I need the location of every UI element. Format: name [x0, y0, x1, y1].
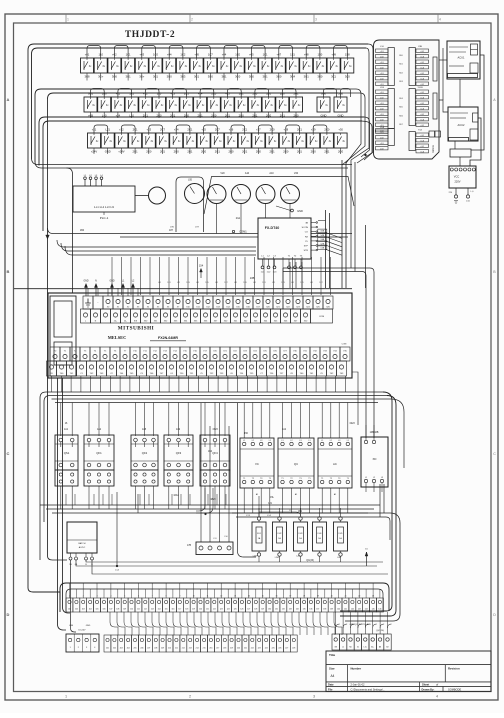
svg-text:2: 2 — [191, 18, 193, 22]
relay contact row3-11 — [225, 133, 238, 148]
svg-text:ACU1: ACU1 — [458, 56, 465, 60]
PLC output terminal Y33 — [320, 347, 330, 361]
relay contact row2-2 — [98, 97, 111, 112]
wire rail A — [32, 158, 353, 165]
net pin 16 — [366, 552, 368, 566]
wire stub — [148, 148, 150, 154]
terminal X1-42 — [349, 598, 356, 612]
svg-text:24-: 24- — [124, 321, 127, 323]
svg-text:T1: T1 — [281, 478, 283, 480]
svg-text:QF3: QF3 — [176, 451, 182, 455]
PLC input terminal dot — [93, 296, 103, 309]
wire stub — [271, 148, 273, 154]
svg-text:201: 201 — [106, 648, 109, 650]
PLC lower input terminal X50 — [301, 309, 311, 323]
terminal pin L3 — [95, 180, 97, 187]
node bundle junction — [365, 154, 367, 156]
pin L1 FX — [262, 259, 264, 266]
relay contact row3-15 — [279, 133, 292, 148]
PLC output lower terminal Y55 — [247, 361, 257, 376]
svg-text:225: 225 — [272, 648, 275, 650]
relay contact row2-1 — [84, 97, 97, 112]
wire stub — [281, 112, 283, 118]
relay contact row1-18 — [313, 58, 326, 73]
node L14 — [116, 565, 118, 567]
svg-text:2H1: 2H1 — [294, 91, 299, 95]
PLC input terminal X3 — [133, 296, 143, 309]
svg-text:QF2: QF2 — [142, 451, 148, 455]
svg-text:V20: V20 — [220, 172, 225, 175]
svg-text:1: 1 — [67, 18, 69, 22]
svg-text:STP: STP — [304, 246, 309, 248]
PLC output lower terminal Y42 — [87, 361, 97, 376]
wire trunk V351 — [350, 160, 352, 268]
svg-text:136: 136 — [309, 609, 312, 611]
terminal X2-22 — [249, 635, 256, 652]
terminal box XT3 — [196, 542, 233, 555]
svg-text:11B: 11B — [320, 248, 324, 250]
wire stub — [240, 112, 242, 118]
svg-text:FX-DT40: FX-DT40 — [265, 226, 280, 230]
wire row3 loop 3 — [149, 125, 163, 133]
pin PSU 3 — [85, 553, 87, 557]
svg-text:107: 107 — [109, 609, 112, 611]
wire row2 loop 5 — [200, 89, 214, 98]
PLC output lower terminal C8 — [287, 361, 297, 376]
wire stub — [86, 73, 88, 81]
wire rail E3 — [65, 246, 256, 255]
contactor AC — [318, 438, 352, 488]
svg-text:130: 130 — [268, 609, 271, 611]
svg-text:204: 204 — [127, 648, 130, 650]
wire row1 loop 10 — [334, 46, 348, 59]
pin RX — [311, 235, 316, 237]
terminal X2-4 — [125, 635, 132, 652]
terminal X1-25 — [232, 598, 239, 612]
wire stub — [326, 148, 328, 154]
wire trunk V47 branch — [48, 228, 353, 234]
PLC output terminal Y27 — [280, 347, 290, 361]
PLC output terminal Y26 — [270, 347, 280, 361]
wire FX fan — [325, 232, 342, 238]
wire stub — [216, 148, 218, 154]
title block table — [326, 651, 491, 692]
svg-text:SD6: SD6 — [399, 115, 403, 117]
svg-text:L1: L1 — [308, 440, 310, 442]
terminal X1-44 — [363, 598, 370, 612]
wire stub — [168, 73, 170, 81]
net arrow L1 — [122, 286, 124, 296]
wire stub — [172, 112, 174, 118]
wire row1 loop 8 — [279, 46, 293, 59]
svg-text:139: 139 — [330, 609, 333, 611]
svg-text:XD: XD — [373, 457, 377, 461]
svg-text:Title: Title — [329, 653, 335, 657]
svg-text:C: C — [7, 451, 10, 456]
svg-text:L1: L1 — [347, 440, 349, 442]
terminal X1-6 — [101, 598, 108, 612]
svg-text:1S9: 1S9 — [243, 282, 246, 284]
svg-text:108: 108 — [116, 609, 119, 611]
wire stub — [319, 73, 321, 81]
wire stub — [120, 148, 122, 154]
svg-text:A1: A1 — [256, 493, 258, 496]
wire row3 loop 6 — [231, 125, 245, 133]
wire row3 loop 7 — [258, 125, 272, 133]
svg-text:1S7: 1S7 — [224, 282, 227, 284]
wire row3 loop 8 — [286, 125, 300, 133]
meter V20 — [281, 185, 300, 204]
svg-text:1A2: 1A2 — [97, 428, 102, 431]
relay contact row3-7 — [170, 133, 183, 148]
wire row2 loop 4 — [173, 89, 187, 98]
svg-text:117: 117 — [178, 609, 181, 611]
node GND — [291, 209, 294, 212]
svg-text:145: 145 — [372, 609, 375, 611]
PLC lower input terminal X45 — [271, 309, 281, 323]
wire stub — [134, 148, 136, 154]
wire stub — [196, 73, 198, 81]
svg-text:T3: T3 — [338, 478, 340, 480]
relay contact row1-8 — [176, 58, 189, 73]
wire row2 loop 3 — [145, 89, 159, 98]
svg-text:1C2: 1C2 — [180, 52, 185, 56]
svg-text:CO: CO — [305, 232, 309, 234]
wire band stub drops — [65, 494, 67, 505]
terminal X1-27 — [245, 598, 252, 612]
PLC input terminal X13 — [213, 296, 223, 309]
relay contact row2-10 — [207, 97, 220, 112]
svg-text:T3: T3 — [260, 478, 262, 480]
wire stub — [250, 73, 252, 81]
terminal X1-43 — [356, 598, 363, 612]
PLC lower input terminal X44 — [261, 309, 271, 323]
terminal X1-33 — [287, 598, 294, 612]
svg-text:15B: 15B — [320, 231, 324, 233]
PLC output terminal Y24 — [250, 347, 260, 361]
label net box — [318, 233, 327, 236]
svg-text:140: 140 — [337, 609, 340, 611]
wire drop 283 — [282, 268, 284, 288]
wire rail B — [35, 162, 348, 169]
PLC input terminal X17 — [253, 296, 263, 309]
wire row2 loop x — [324, 89, 337, 98]
PLC output terminal Y6 — [110, 347, 120, 361]
PLC output terminal Y35 — [340, 347, 350, 361]
relay contact row1-7 — [163, 58, 176, 73]
svg-text:T2: T2 — [252, 478, 254, 480]
svg-text:T1: T1 — [243, 478, 245, 480]
PLC output terminal Y32 — [310, 347, 320, 361]
svg-text:2C1: 2C1 — [242, 127, 247, 131]
relay contact row2-7 — [166, 97, 179, 112]
wire stub — [117, 112, 119, 118]
svg-text:106: 106 — [103, 609, 106, 611]
svg-text:3: 3 — [86, 647, 87, 649]
wire row3 loop 9 — [313, 125, 327, 133]
bus bar panel 1 — [433, 57, 437, 81]
svg-text:2C7: 2C7 — [160, 127, 165, 131]
svg-text:114: 114 — [158, 609, 161, 611]
svg-text:C:\Documents and Settings\...: C:\Documents and Settings\... — [351, 687, 386, 691]
wire stub — [292, 73, 294, 81]
wire row3 loop 2 — [121, 125, 135, 133]
terminal X2-14 — [194, 635, 201, 652]
wire drop V220 — [219, 403, 221, 542]
wire strip drop V62 — [63, 378, 71, 613]
terminal X2-6 — [139, 635, 146, 652]
wire stub — [127, 73, 129, 81]
wire stub — [285, 148, 287, 154]
pin STR — [311, 249, 316, 251]
PLC output lower terminal Y41 — [67, 361, 77, 376]
svg-text:14B 16B: 14B 16B — [370, 432, 379, 434]
wire left bus L4 — [48, 93, 339, 99]
wire hooks strip1-strip2 — [110, 612, 118, 635]
terminal X1-5 — [94, 598, 101, 612]
PLC output terminal Y0 — [50, 347, 60, 361]
svg-text:1C0: 1C0 — [235, 52, 240, 56]
PLC output lower terminal Y46 — [147, 361, 157, 376]
bar ACU1 — [448, 74, 478, 78]
svg-text:L61: L61 — [215, 282, 218, 284]
pin PL — [311, 240, 316, 242]
PLC output lower terminal C4 — [167, 361, 177, 376]
wire right outline mid — [294, 170, 300, 236]
PLC input terminal X10 — [183, 296, 193, 309]
PLC output lower terminal Y51 — [187, 361, 197, 376]
svg-text:4: 4 — [94, 647, 95, 649]
PLC output lower terminal C2 — [107, 361, 117, 376]
terminal X1-8 — [114, 598, 121, 612]
terminal X3-1 — [332, 634, 339, 650]
wire row3 loop 4 — [176, 125, 190, 133]
svg-text:110: 110 — [130, 609, 133, 611]
wire stub — [237, 73, 239, 81]
terminal X1-29 — [259, 598, 266, 612]
terminal X1-23 — [218, 598, 225, 612]
fuse FU2 — [273, 522, 287, 551]
relay contact row1-4 — [122, 58, 135, 73]
wire row2 loop x — [341, 89, 351, 98]
relay contact row2-5 — [139, 97, 152, 112]
wire strip1 left feed — [62, 520, 64, 583]
connector group J2B — [416, 90, 429, 93]
svg-text:128: 128 — [254, 609, 257, 611]
svg-text:L21: L21 — [105, 127, 110, 131]
svg-text:137: 137 — [316, 609, 319, 611]
connector group J3A — [376, 130, 389, 133]
meter V20 — [207, 185, 226, 204]
svg-text:(QC,26): (QC,26) — [376, 630, 384, 632]
wire stubs above PLC — [87, 288, 89, 296]
svg-text:GND: GND — [86, 625, 91, 627]
PLC input terminal X4 — [143, 296, 153, 309]
wire rail D4 — [55, 402, 378, 404]
svg-text:T1: T1 — [347, 478, 349, 480]
PLC input terminal X2 — [123, 296, 133, 309]
relay contact row3-3 — [115, 133, 128, 148]
wire drop V384 — [383, 484, 385, 513]
svg-text:102: 102 — [75, 609, 78, 611]
terminal X1-38 — [321, 598, 328, 612]
svg-text:154: 154 — [199, 264, 204, 268]
svg-text:134: 134 — [296, 609, 299, 611]
terminal X2-7 — [145, 635, 152, 652]
terminal X1-41 — [342, 598, 349, 612]
terminal X1-45 — [370, 598, 377, 612]
wire stub — [254, 112, 256, 118]
svg-text:125: 125 — [234, 609, 237, 611]
net arrow L2 — [132, 286, 134, 296]
relay contact row2-3 — [111, 97, 124, 112]
PLC output lower terminal Y61 — [307, 361, 317, 376]
PLC output terminal Y1 — [60, 347, 70, 361]
svg-text:L01: L01 — [253, 282, 256, 284]
svg-text:Date: Date — [328, 682, 334, 686]
pin VCC L10 — [467, 188, 469, 195]
PLC lower input terminal 24- — [121, 309, 131, 323]
svg-text:217: 217 — [216, 648, 219, 650]
svg-text:1C1: 1C1 — [126, 52, 131, 56]
pin PSU 4 — [91, 553, 93, 557]
relay contact row1-11 — [218, 58, 231, 73]
wire drop V117 — [116, 492, 118, 566]
terminal X3-8 — [384, 634, 391, 650]
PLC lower input terminal &#183; — [101, 309, 111, 323]
wire stub — [185, 112, 187, 118]
svg-text:L61: L61 — [310, 282, 313, 284]
svg-text:228: 228 — [292, 648, 295, 650]
relay contact row1-13 — [245, 58, 258, 73]
wire stub — [113, 73, 115, 81]
svg-text:L2: L2 — [252, 440, 254, 442]
svg-text:2C0: 2C0 — [211, 91, 216, 95]
buzzer HA1 — [149, 187, 166, 204]
svg-text:D: D — [493, 613, 496, 617]
relay contact row1-19 — [327, 58, 340, 73]
PLC input terminal X11 — [193, 296, 203, 309]
PLC output lower terminal C7 — [257, 361, 267, 376]
svg-text:L41: L41 — [196, 282, 199, 284]
bar ACU2 — [449, 138, 469, 142]
wire stub — [189, 148, 191, 154]
svg-text:126: 126 — [240, 609, 243, 611]
wire bus y562 — [86, 560, 383, 562]
PLC output lower terminal Y43 — [97, 361, 107, 376]
PLC output terminal Y14 — [170, 347, 180, 361]
PLC input terminal X6 — [163, 296, 173, 309]
svg-text:B2: B2 — [386, 647, 388, 649]
PLC input terminal PE — [83, 296, 93, 309]
pin PSU 1 — [70, 553, 72, 557]
svg-text:of: of — [436, 682, 438, 686]
node j513 — [205, 513, 207, 515]
svg-text:C: C — [493, 452, 496, 456]
svg-text:17B: 17B — [187, 545, 192, 547]
PLC lower input terminal X31 — [151, 309, 161, 323]
PLC output terminal Y11 — [140, 347, 150, 361]
svg-text:1A1: 1A1 — [129, 91, 134, 95]
svg-text:1C1: 1C1 — [263, 52, 268, 56]
svg-text:4: 4 — [436, 695, 438, 699]
svg-text:221: 221 — [244, 648, 247, 650]
svg-text:A1: A1 — [334, 493, 336, 496]
svg-text:4: 4 — [439, 18, 441, 22]
terminal X1-7 — [107, 598, 114, 612]
wire row1 loop 6 — [224, 46, 238, 59]
PLC output lower terminal C0 — [47, 361, 57, 376]
PLC output terminal Y31 — [300, 347, 310, 361]
svg-text:115: 115 — [165, 609, 168, 611]
wire stub — [107, 148, 109, 154]
svg-text:227: 227 — [285, 648, 288, 650]
svg-text:VC: VC — [255, 462, 259, 466]
svg-text:215: 215 — [203, 648, 206, 650]
relay contact row1-16 — [286, 58, 299, 73]
PLC output terminal Y30 — [290, 347, 300, 361]
terminal X2-25 — [270, 635, 277, 652]
svg-text:T3: T3 — [299, 478, 301, 480]
wire hooks to bus513 — [196, 488, 205, 511]
wire row3 loop 5 — [204, 125, 218, 133]
PLC lower input terminal N — [91, 309, 101, 323]
wire stub — [227, 112, 229, 118]
svg-text:J3B: J3B — [418, 46, 422, 48]
svg-text:A4: A4 — [331, 674, 335, 678]
terminal X3-4 — [354, 634, 361, 650]
svg-text:THJDDT-2: THJDDT-2 — [125, 30, 175, 40]
svg-text:2B1: 2B1 — [266, 91, 271, 95]
svg-text:205: 205 — [134, 648, 137, 650]
svg-text:1C7: 1C7 — [208, 52, 213, 56]
wire strip drop V57 — [58, 378, 67, 630]
label net box — [318, 246, 327, 249]
svg-text:GND: GND — [321, 114, 327, 118]
PLC output lower terminal C6 — [227, 361, 237, 376]
svg-text:207: 207 — [147, 648, 150, 650]
svg-text:1S3: 1S3 — [281, 282, 284, 284]
relay contact row1-10 — [204, 58, 217, 73]
PLC lower input terminal X47 — [291, 309, 301, 323]
PLC input terminal X0 — [103, 296, 113, 309]
wire row2 loop 2 — [118, 89, 132, 98]
svg-text:1S0: 1S0 — [318, 52, 323, 56]
relay contact row3-12 — [238, 133, 251, 148]
terminal X2-21 — [242, 635, 249, 652]
connector group J1A — [376, 49, 389, 52]
wire row3 loop 1 — [94, 125, 108, 133]
wire stub — [312, 148, 314, 154]
pin T1 FX — [288, 259, 290, 266]
svg-text:118: 118 — [185, 609, 188, 611]
wire stub — [158, 112, 160, 118]
wire drop V380 — [379, 484, 381, 517]
svg-text:QF4: QF4 — [212, 451, 218, 455]
svg-text:101: 101 — [68, 609, 71, 611]
power supply G1 — [67, 522, 97, 553]
PLC lower input terminal X43 — [251, 309, 261, 323]
svg-text:L50: L50 — [224, 536, 227, 538]
svg-text:L3: L3 — [260, 440, 262, 442]
terminal X1-9 — [121, 598, 128, 612]
svg-text:143: 143 — [358, 609, 361, 611]
wire stub — [223, 73, 225, 81]
terminal X2-11 — [173, 635, 180, 652]
svg-text:1A0: 1A0 — [102, 91, 107, 95]
svg-text:2: 2 — [189, 695, 191, 699]
terminal X1-30 — [266, 598, 273, 612]
